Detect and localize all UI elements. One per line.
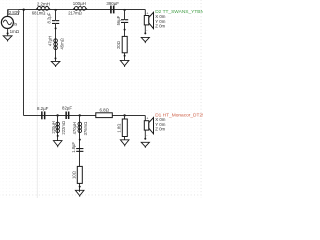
speaker D1 [144, 116, 153, 140]
svg-text:2.83V: 2.83V [9, 10, 20, 15]
svg-text:681mΩ: 681mΩ [32, 11, 46, 16]
wire left vertical feed [23, 10, 25, 116]
svg-text:376mΩ: 376mΩ [83, 122, 88, 136]
resistor R2 10ohm (branch D) [71, 166, 82, 183]
wire branch B down [124, 10, 126, 61]
svg-text:1mΩ: 1mΩ [10, 29, 20, 34]
node E [123, 114, 125, 116]
inductor L1 2.2mH [32, 2, 50, 16]
ground (branch E) [120, 140, 129, 145]
wire branch E down [124, 116, 126, 140]
ground (branch B) [120, 60, 129, 65]
svg-text:0s: 0s [13, 21, 18, 26]
ground tails [8, 40, 146, 197]
node C [56, 114, 58, 116]
ground (generator) [7, 32, 9, 34]
svg-text:+: + [146, 12, 148, 16]
svg-text:20Ω: 20Ω [116, 41, 121, 49]
capacitor C6 1.8uF (branch D) [71, 142, 83, 153]
resistor R1 20ohm (shunt) [116, 36, 127, 52]
node B [124, 9, 126, 11]
svg-text:1.8Ω: 1.8Ω [117, 124, 122, 133]
node junction top-left [23, 9, 25, 11]
inductor L3 100uH [68, 1, 87, 15]
svg-text:1.8µF: 1.8µF [71, 142, 76, 153]
svg-text:8.2µF: 8.2µF [46, 12, 51, 23]
svg-text:10Ω: 10Ω [71, 171, 76, 179]
inductor L4 220uH (shunt) [51, 121, 66, 135]
svg-text:47µH: 47µH [48, 36, 53, 46]
wire top rail [8, 9, 146, 11]
svg-text:222mΩ: 222mΩ [61, 121, 66, 135]
svg-text:2.2mH: 2.2mH [37, 2, 50, 7]
node dot branch A [55, 27, 57, 29]
inductor L5 470uH (shunt) [72, 122, 88, 136]
wire bottom rail [24, 115, 146, 117]
node D [79, 114, 81, 116]
svg-text:390µF: 390µF [106, 1, 119, 6]
svg-text:Z 0m: Z 0m [155, 24, 165, 29]
wire branch C down [57, 116, 59, 141]
svg-text:8.2µF: 8.2µF [37, 106, 49, 111]
ground (branch D) [75, 190, 84, 195]
svg-text:+: + [146, 117, 148, 121]
svg-text:45mΩ: 45mΩ [60, 38, 65, 49]
label 2.83V boxed [8, 10, 20, 15]
svg-text:6.8Ω: 6.8Ω [100, 107, 110, 112]
generator G1 [1, 10, 13, 36]
node A [55, 9, 57, 11]
grid background [0, 0, 203, 198]
ground (branch A) [55, 57, 57, 59]
node dot branch B [124, 29, 126, 31]
svg-text:217mΩ: 217mΩ [68, 10, 82, 15]
capacitor C4 8.2uF (series bottom) [37, 106, 49, 120]
speaker D2 [144, 10, 153, 35]
capacitor C2 390uF (series) [106, 1, 119, 13]
ground (D1) [141, 142, 149, 146]
svg-text:-: - [146, 28, 147, 32]
ground (D2) [141, 37, 149, 41]
svg-text:220µH: 220µH [51, 121, 56, 133]
svg-text:470µH: 470µH [72, 122, 77, 134]
svg-text:-: - [146, 134, 147, 138]
capacitor C5 82uF (series bottom) [62, 106, 72, 119]
capacitor C3 56uF (shunt) [116, 15, 128, 25]
wire branch A down [55, 10, 57, 62]
svg-text:82µF: 82µF [62, 106, 72, 111]
wire branch D down [79, 116, 81, 192]
svg-text:Z 0m: Z 0m [155, 127, 165, 132]
svg-text:56µF: 56µF [116, 15, 121, 25]
inductor L2 47uH (shunt) [48, 36, 65, 50]
svg-text:100µH: 100µH [73, 1, 86, 6]
resistor R4 1.8ohm (shunt) [117, 119, 128, 137]
resistor R3 6.8ohm (series bottom) [96, 107, 113, 117]
capacitor C1 8.2uF (shunt) [46, 12, 59, 24]
ground (branch C) [53, 141, 62, 146]
